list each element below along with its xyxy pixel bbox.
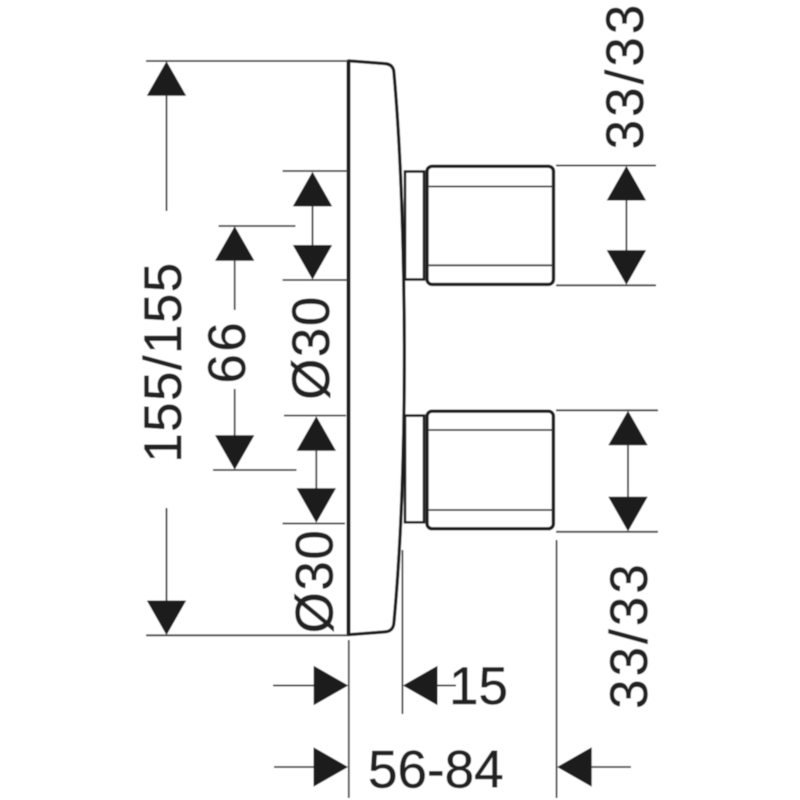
dimension Ø30 bottom: up arrowhead bbox=[297, 416, 336, 451]
dimension Ø30 top: upper extension line bbox=[283, 170, 349, 172]
svg-text:Ø30: Ø30 bbox=[282, 295, 341, 400]
dimension 15: lead to text bbox=[437, 685, 456, 687]
svg-text:Ø30: Ø30 bbox=[286, 529, 345, 634]
dimension 155/155: upper shaft bbox=[166, 95, 168, 211]
dimension 15: right arrowhead pointing right bbox=[314, 666, 349, 705]
dimension 66: up arrowhead bbox=[215, 226, 254, 261]
dimension 66: upper shaft bbox=[234, 260, 236, 310]
dimension Ø30 top: down arrowhead bbox=[293, 245, 332, 280]
top knob upper groove line bbox=[429, 186, 553, 188]
dimension 33/33 top: down arrowhead bbox=[607, 250, 646, 285]
bottom stem (valve spindle) bbox=[405, 416, 424, 523]
bottom knob upper groove line bbox=[429, 429, 553, 431]
dimension 33/33 top: up arrowhead bbox=[607, 166, 646, 201]
dimension 66: lower shaft bbox=[234, 389, 236, 440]
dimension Ø30 bottom: shaft bbox=[315, 450, 317, 490]
top stem (valve spindle) bbox=[405, 172, 424, 280]
dimension Ø30 top: lower extension line bbox=[283, 279, 349, 281]
svg-text:66: 66 bbox=[198, 320, 257, 384]
bottom knob body bbox=[427, 411, 553, 529]
dimension 15: left arrowhead pointing left bbox=[403, 666, 438, 705]
dimension 66: bottom extension line bbox=[213, 469, 297, 471]
dimension 33/33 bottom: down arrowhead bbox=[608, 497, 647, 532]
dimension 56-84: right lead line bbox=[591, 766, 631, 768]
dimension 66: down arrowhead bbox=[215, 435, 254, 470]
top knob lower groove line bbox=[429, 264, 553, 266]
dimension 56-84: left arrowhead pointing right bbox=[314, 747, 349, 786]
dimension 66: top extension line bbox=[219, 225, 296, 227]
dimension 33/33 bottom: shaft bbox=[627, 445, 629, 499]
dimension Ø30 top: shaft bbox=[312, 206, 314, 246]
svg-text:33/33: 33/33 bbox=[600, 561, 659, 709]
bottom knob lower groove line bbox=[429, 509, 553, 511]
dimension 33/33 bottom: up arrowhead bbox=[608, 411, 647, 446]
dimension 155/155: lower shaft bbox=[166, 508, 168, 601]
dimension Ø30 bottom: lower extension line bbox=[283, 523, 346, 525]
dimension 15: wall-face extension line bbox=[348, 640, 350, 798]
dimension Ø30 bottom: upper extension line bbox=[284, 415, 346, 417]
dimension 15: plate-face extension line bbox=[401, 550, 403, 714]
svg-text:56-84: 56-84 bbox=[368, 741, 504, 800]
dimension Ø30 top: up arrowhead bbox=[293, 172, 332, 207]
svg-text:33/33: 33/33 bbox=[596, 2, 655, 150]
dimension 33/33 top: shaft bbox=[625, 200, 627, 252]
dimension 33/33 top: lower extension line bbox=[556, 284, 656, 286]
dimension 56-84: left lead line bbox=[274, 766, 315, 768]
dimension 56-84: right arrowhead pointing left bbox=[557, 747, 592, 786]
dimension 155/155: down arrowhead bbox=[147, 601, 186, 636]
svg-text:155/155: 155/155 bbox=[134, 261, 193, 462]
dimension 155/155: top extension line bbox=[146, 60, 348, 62]
top knob body bbox=[427, 166, 554, 284]
plate back face edge bbox=[347, 61, 351, 636]
dimension 155/155: up arrowhead bbox=[147, 61, 186, 96]
plate outline (side view of escutcheon) bbox=[349, 61, 405, 635]
dimension 33/33 bottom: lower extension line bbox=[556, 531, 658, 533]
dimension 33/33 bottom: upper extension line bbox=[556, 409, 658, 411]
dimension 155/155: bottom extension line bbox=[146, 634, 348, 636]
svg-text:15: 15 bbox=[449, 657, 508, 716]
dimension 56-84: knob-face extension line bbox=[556, 540, 558, 798]
dimension Ø30 bottom: down arrowhead bbox=[297, 488, 336, 523]
dimension 33/33 top: upper extension line bbox=[556, 165, 656, 167]
dimension 15: left lead line bbox=[273, 685, 315, 687]
